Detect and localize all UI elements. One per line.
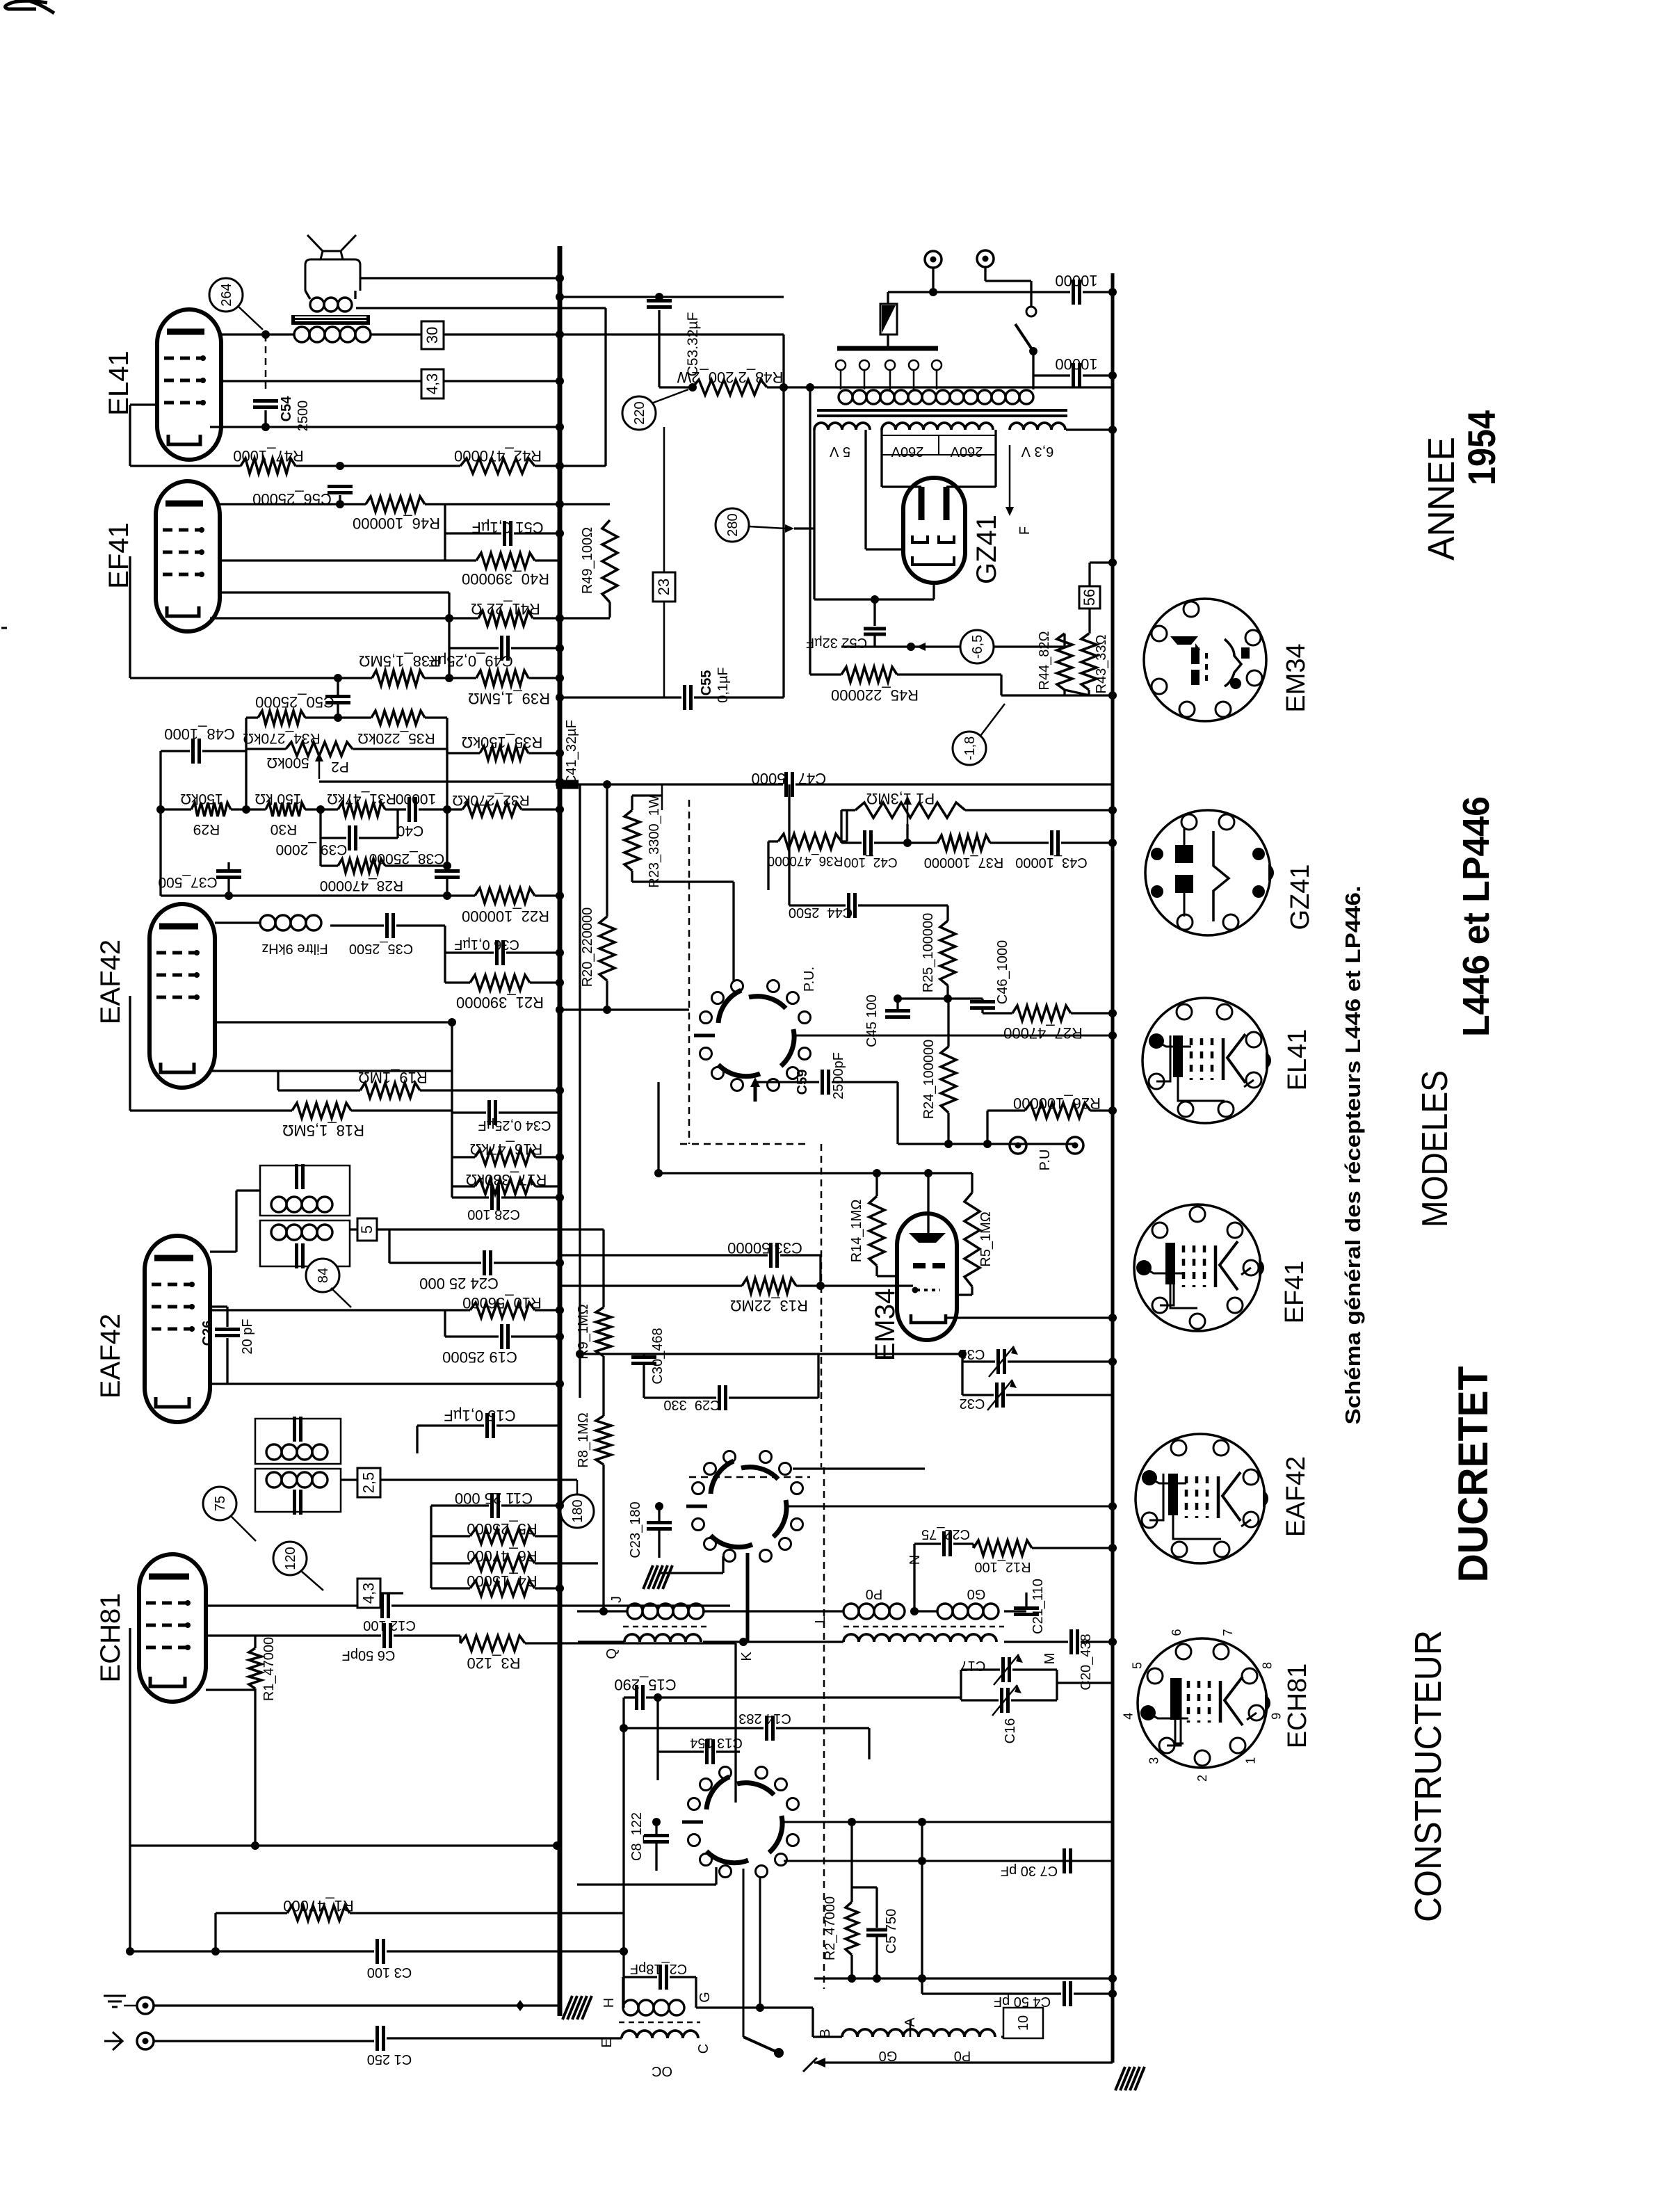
wire R4 right bbox=[535, 1587, 560, 1589]
svg-text:R43_33Ω: R43_33Ω bbox=[1094, 634, 1109, 693]
IFT B upper coil bbox=[266, 1444, 282, 1460]
transformer T1 core bbox=[817, 409, 1067, 412]
capacitor C20 bbox=[1069, 1629, 1073, 1654]
svg-text:R35_150kΩ: R35_150kΩ bbox=[462, 734, 543, 751]
row C4 bbox=[922, 1992, 1061, 1994]
tube EF41 bbox=[156, 481, 220, 631]
tap box 5 bbox=[357, 1218, 377, 1241]
box 10 bbox=[1003, 2008, 1043, 2038]
wire C53 drop bbox=[658, 310, 660, 387]
wafer S3 left arm bbox=[682, 1821, 703, 1824]
wire GO to C21 bbox=[1004, 1610, 1026, 1612]
wire vertical drop to R42 row bbox=[604, 308, 606, 466]
svg-text:R37_100000: R37_100000 bbox=[924, 855, 1004, 870]
wire C5 bottom bbox=[875, 1935, 878, 1978]
svg-text:C8_122: C8_122 bbox=[629, 1812, 645, 1861]
svg-text:10000: 10000 bbox=[1055, 355, 1097, 373]
capacitor C53 bbox=[647, 299, 672, 303]
svg-text:R39_1,5MΩ: R39_1,5MΩ bbox=[468, 690, 550, 707]
resistor R8 (vertical) bbox=[596, 1416, 611, 1465]
junction bbox=[873, 1974, 881, 1983]
svg-text:R26_100000: R26_100000 bbox=[1013, 1095, 1101, 1112]
wire primary to 30 box bbox=[371, 333, 421, 335]
junction bbox=[556, 644, 564, 652]
svg-text:MODELES: MODELES bbox=[1415, 1070, 1455, 1227]
resistor R49 (vertical) bbox=[602, 520, 617, 602]
wire bottom arrow row bbox=[814, 2061, 1113, 2063]
wire R1 bottom bbox=[254, 1688, 256, 1846]
svg-text:4: 4 bbox=[1122, 1713, 1136, 1720]
wafer S3 stem2 bbox=[759, 1878, 761, 2008]
wire J right bbox=[702, 1610, 843, 1612]
wire callout 264 to plate node bbox=[239, 307, 263, 330]
wire EAF42b cathode row bbox=[210, 1382, 560, 1385]
wire switch blade2 bbox=[1015, 324, 1033, 351]
svg-text:R25_100000: R25_100000 bbox=[921, 913, 936, 993]
wire C59 right bbox=[832, 1081, 898, 1083]
svg-text:C33 50000: C33 50000 bbox=[727, 1239, 802, 1257]
svg-text:C4 50 pF: C4 50 pF bbox=[994, 1994, 1051, 2009]
svg-text:CONSTRUCTEUR: CONSTRUCTEUR bbox=[1407, 1630, 1449, 1922]
wire C32 right bbox=[1006, 1394, 1113, 1396]
wire R36 right bbox=[841, 840, 847, 842]
svg-text:Schéma général des récepteurs: Schéma général des récepteurs L446 et LP… bbox=[1341, 886, 1365, 1425]
wire R47 to C56 node bbox=[296, 465, 340, 467]
resistor R35b bbox=[371, 711, 425, 725]
junction bbox=[1108, 558, 1117, 567]
svg-text:F: F bbox=[1017, 526, 1033, 535]
wire main HT bus (vertical) bbox=[558, 246, 563, 2016]
svg-text:4,3: 4,3 bbox=[423, 373, 441, 395]
capacitor C8 bbox=[644, 1834, 669, 1837]
antenna terminal bbox=[137, 2033, 154, 2049]
wire row 427 bbox=[560, 296, 784, 298]
wire ground row to bus bbox=[154, 2004, 560, 2006]
wire C4 right bbox=[1074, 1992, 1113, 1994]
svg-text:3: 3 bbox=[1147, 1757, 1161, 1764]
wire cap to bus bbox=[1083, 291, 1113, 293]
tube GZ41 bbox=[903, 478, 965, 583]
wire R27 right bbox=[1071, 1012, 1113, 1014]
svg-text:R20_220000: R20_220000 bbox=[580, 908, 595, 987]
wire 56 bottom bbox=[1088, 608, 1090, 634]
svg-text:-1,8: -1,8 bbox=[962, 736, 978, 760]
junction bbox=[918, 1818, 926, 1826]
dashed core OC bbox=[619, 2022, 700, 2024]
wire R26 left drop bbox=[986, 1111, 988, 1144]
wire R14 top bbox=[875, 1173, 878, 1196]
svg-text:120: 120 bbox=[283, 1547, 298, 1570]
tube EAF42 second bbox=[145, 1236, 210, 1422]
wire C55 right bbox=[694, 696, 784, 698]
wire antenna row bbox=[154, 2040, 374, 2042]
resistor R24 (vertical) bbox=[941, 1047, 956, 1113]
resistor R21 bbox=[470, 975, 530, 990]
svg-text:GZ41: GZ41 bbox=[1286, 864, 1315, 930]
wire R19 right bbox=[420, 1089, 560, 1091]
svg-text:150kΩ: 150kΩ bbox=[180, 791, 223, 807]
wire up to wafer bbox=[722, 1556, 724, 1573]
svg-text:C6 50pF: C6 50pF bbox=[342, 1647, 396, 1663]
resistor R44 (vertical) bbox=[1057, 634, 1072, 690]
wire R18 left bbox=[130, 1109, 292, 1111]
junction bbox=[944, 1140, 953, 1148]
junction bbox=[336, 462, 344, 470]
junction bbox=[873, 1169, 881, 1177]
wire R44 top bbox=[1063, 634, 1065, 647]
svg-text:C34 0,25µF: C34 0,25µF bbox=[478, 1118, 551, 1133]
wire R23 top row bbox=[631, 796, 633, 810]
wire R36 left bbox=[768, 840, 778, 842]
svg-text:R22_100000: R22_100000 bbox=[462, 908, 549, 925]
junction bbox=[556, 1584, 564, 1593]
wire R1b left bbox=[216, 1912, 287, 1914]
svg-text:20 pF: 20 pF bbox=[240, 1319, 255, 1354]
junction bbox=[983, 1140, 992, 1148]
ground hatch at bottom of right bus bbox=[1115, 2067, 1125, 2090]
wire R33 left bbox=[447, 752, 480, 754]
wire R28 right bbox=[385, 864, 447, 866]
PU jack 2 bbox=[1067, 1137, 1083, 1154]
resistor R3 bbox=[460, 1636, 525, 1651]
wire C55 left bbox=[560, 696, 681, 698]
svg-text:30: 30 bbox=[423, 327, 441, 344]
svg-text:EAF42: EAF42 bbox=[95, 940, 126, 1024]
wire c13 drop bbox=[656, 1728, 659, 1780]
svg-text:C43_10000: C43_10000 bbox=[1015, 855, 1087, 870]
wire B col bbox=[811, 2008, 814, 2037]
tube ECH81 bbox=[139, 1554, 206, 1702]
wire ECH81 triode grid return bbox=[129, 1628, 131, 1951]
wire A tap bbox=[910, 2020, 912, 2037]
svg-text:G0: G0 bbox=[879, 2048, 898, 2063]
wire R13 left bbox=[560, 1284, 742, 1287]
wire EF41 plate row bbox=[220, 503, 366, 505]
junction bbox=[1108, 426, 1117, 434]
wire R23 bottom row bbox=[632, 880, 734, 882]
wire vertical x461 bbox=[319, 809, 321, 866]
IFT B lower coil bbox=[266, 1472, 282, 1488]
capacitor C6 bbox=[382, 1623, 386, 1648]
junction bbox=[1108, 1544, 1117, 1552]
transformer T1 6,3V winding bbox=[1010, 423, 1065, 430]
wire P2 left bbox=[246, 748, 286, 750]
junction bbox=[261, 330, 270, 339]
wire C2 bracketR bbox=[695, 1977, 697, 2008]
wire R1b right bbox=[350, 1912, 624, 1914]
junction bbox=[556, 293, 564, 301]
wire C29 left bbox=[644, 1396, 716, 1398]
svg-text:M: M bbox=[1042, 1653, 1058, 1665]
svg-text:C21_110: C21_110 bbox=[1031, 1579, 1046, 1634]
wire C35 right bbox=[396, 924, 445, 926]
wire R48 row right bbox=[767, 386, 1113, 388]
wire EM34 cathode out bbox=[946, 1316, 1113, 1319]
wire C14 left bbox=[624, 1727, 764, 1729]
wire top row drop bbox=[657, 1082, 659, 1173]
wire EL41 grid left bbox=[130, 403, 159, 405]
wire C8 bottom bbox=[655, 1842, 657, 1871]
svg-text:G0: G0 bbox=[967, 1586, 986, 1602]
capacitor C44 bbox=[847, 893, 850, 918]
wire EF41 screen row bbox=[220, 559, 476, 561]
svg-text:R24_100000: R24_100000 bbox=[921, 1040, 937, 1120]
wire switch blade bbox=[743, 2037, 779, 2053]
svg-text:C36 0,1µF: C36 0,1µF bbox=[454, 937, 519, 952]
capacitor C41 bbox=[556, 780, 579, 784]
wire to bus c16 bbox=[1057, 1682, 1113, 1684]
capacitor C12 bbox=[380, 1593, 384, 1618]
svg-text:R4_15000: R4_15000 bbox=[467, 1572, 538, 1590]
wire R35b right bbox=[425, 716, 447, 718]
svg-text:-6,5: -6,5 bbox=[970, 635, 985, 659]
junction bbox=[918, 1857, 926, 1865]
wire C31 left lead bbox=[962, 1360, 995, 1362]
wafer S3 right arm bbox=[784, 1821, 1113, 1823]
junction bbox=[443, 805, 451, 814]
svg-text:280: 280 bbox=[725, 513, 741, 536]
wire 260V left plate bbox=[880, 430, 882, 487]
wire P1 left bbox=[841, 809, 855, 811]
capacitor C38 (vertical) bbox=[435, 869, 460, 873]
wire C49 left bbox=[449, 647, 499, 649]
wire R25 top bbox=[946, 905, 948, 921]
callout circle 120 bbox=[273, 1542, 307, 1575]
wire EF41 cathode row bbox=[210, 617, 478, 619]
capacitor C49 bbox=[500, 636, 503, 661]
wire ground lead bbox=[124, 2005, 137, 2007]
wire C3 right bbox=[387, 1950, 624, 1952]
wire row1164 b bbox=[231, 808, 266, 810]
junction bbox=[655, 1502, 663, 1510]
resistor R5 25000 bbox=[470, 1529, 535, 1544]
wafer S2 left arm bbox=[686, 1505, 707, 1508]
capacitor C22 bbox=[942, 1531, 946, 1556]
fuse bbox=[880, 304, 897, 334]
junction bbox=[556, 1332, 564, 1341]
wire jack1 lead bbox=[932, 268, 934, 292]
wire C34 left bbox=[452, 1111, 486, 1113]
wire R48 row left bbox=[659, 386, 693, 388]
wire P2 right bbox=[353, 748, 447, 750]
junction bbox=[603, 780, 611, 789]
wire S3 lower row bbox=[577, 1883, 716, 1885]
wire wiper drop bbox=[906, 824, 908, 843]
svg-text:C17: C17 bbox=[960, 1658, 986, 1673]
capacitor C52 bbox=[864, 627, 886, 631]
wire C17 bracket bbox=[960, 1670, 962, 1700]
wire P1 right bbox=[965, 809, 1113, 811]
svg-text:Q: Q bbox=[604, 1648, 620, 1659]
coil PO bbox=[843, 1604, 859, 1619]
phone jack 1 bbox=[925, 251, 942, 268]
wire R37 to C43 bbox=[990, 841, 1049, 844]
wire 23 bottom bbox=[663, 602, 665, 698]
wire C15b left bbox=[417, 1424, 484, 1426]
wire EM34 grid feed bbox=[927, 1173, 929, 1233]
wire R16 right bbox=[535, 1156, 560, 1158]
junction bbox=[944, 994, 952, 1003]
junction bbox=[894, 994, 902, 1003]
wire C36 right bbox=[506, 951, 560, 953]
wire bottoms row bbox=[1001, 694, 1113, 696]
wire R18 right bbox=[351, 1109, 452, 1111]
wire C16 right bbox=[1011, 1699, 1057, 1701]
resistor R34 bbox=[258, 711, 305, 725]
capacitor C37 (vertical) bbox=[216, 869, 241, 873]
wire row 1452 bbox=[560, 1008, 689, 1010]
wire C59 drop bbox=[896, 1082, 898, 1144]
svg-text:R28_470000: R28_470000 bbox=[320, 878, 403, 894]
transformer T1 primary bar bbox=[837, 346, 938, 351]
wire C46 top stub bbox=[981, 999, 983, 1002]
coil E-C (OC) bbox=[622, 2031, 698, 2038]
wire C23 top bbox=[658, 1506, 660, 1522]
wire R1b drop bbox=[214, 1913, 216, 1951]
svg-text:C24 25 000: C24 25 000 bbox=[419, 1275, 499, 1292]
coil J bbox=[627, 1604, 643, 1619]
arrow S bbox=[814, 2058, 825, 2067]
wire R24 bottom bbox=[947, 1113, 949, 1144]
wire R40 to bus bbox=[535, 559, 560, 561]
junction bbox=[443, 862, 451, 870]
callout circle 75 bbox=[203, 1487, 236, 1520]
wire left vertical bbox=[159, 751, 161, 896]
wire C13 right bbox=[716, 1750, 740, 1752]
wire x1326 down bbox=[921, 1822, 923, 1994]
wire Q left bbox=[578, 1640, 624, 1643]
svg-text:56: 56 bbox=[1081, 589, 1098, 606]
resistor R30 bbox=[266, 803, 305, 816]
junction bbox=[688, 383, 697, 392]
corner scribble bbox=[5, 1, 47, 9]
svg-text:C32: C32 bbox=[960, 1396, 985, 1411]
resistor R33 150k bbox=[480, 746, 528, 760]
svg-text:R3_120: R3_120 bbox=[467, 1654, 520, 1672]
wire 260V right plate bbox=[994, 430, 996, 487]
junction bbox=[556, 749, 564, 757]
wire R17 left bbox=[452, 1185, 475, 1187]
capacitor C29 bbox=[718, 1385, 721, 1410]
tap box 2,5 bbox=[357, 1468, 380, 1497]
svg-text:1: 1 bbox=[1243, 1757, 1257, 1764]
svg-text:10000: 10000 bbox=[396, 791, 436, 807]
svg-text:R17_330kΩ: R17_330kΩ bbox=[466, 1171, 547, 1188]
capacitor C23 bbox=[647, 1521, 672, 1524]
wire grid drop bbox=[448, 592, 450, 678]
svg-text:R16_47kΩ: R16_47kΩ bbox=[470, 1140, 543, 1158]
wire left coil column bbox=[622, 1698, 624, 2008]
callout circle -1,8 bbox=[953, 732, 986, 765]
wire R5b top bbox=[971, 1173, 973, 1193]
wire node to R42 bbox=[340, 465, 460, 467]
wire R20 top bbox=[606, 784, 608, 917]
svg-text:R35_220kΩ: R35_220kΩ bbox=[357, 730, 435, 746]
wire C39 right bbox=[359, 837, 398, 839]
junction bbox=[261, 423, 270, 431]
wire C47 left bbox=[689, 783, 783, 785]
junction bbox=[126, 1947, 134, 1956]
socket diagram EF41 bbox=[1134, 1204, 1261, 1331]
svg-text:C52 32µF: C52 32µF bbox=[806, 635, 867, 650]
wire R6 right bbox=[535, 1562, 598, 1564]
wire R41 to bus bbox=[533, 617, 610, 619]
wire C24 left up bbox=[388, 1230, 390, 1263]
resistor R17 bbox=[475, 1179, 535, 1194]
transformer T2 secondary coil bbox=[310, 298, 324, 312]
dashed h wafer2 bbox=[689, 1476, 810, 1478]
junction bbox=[929, 288, 937, 296]
transformer T2 primary coil bbox=[294, 327, 309, 342]
wire EAF42 cathode row bbox=[211, 1070, 452, 1072]
resistor R5b (vertical) bbox=[964, 1193, 980, 1287]
junction bbox=[556, 330, 564, 339]
wire callout 180 bbox=[576, 1480, 579, 1494]
wire grid to R47 bbox=[130, 465, 241, 467]
wire C3 left bbox=[130, 1950, 374, 1952]
capacitor C34 bbox=[487, 1100, 491, 1125]
capacitor C33 bbox=[769, 1243, 773, 1268]
capacitor C14 bbox=[765, 1716, 768, 1741]
wire C42 left bbox=[841, 841, 862, 844]
svg-text:P0: P0 bbox=[954, 2048, 971, 2063]
wire C17 left bbox=[961, 1668, 1000, 1670]
coil GO bbox=[937, 1604, 953, 1619]
svg-text:GZ41: GZ41 bbox=[971, 515, 1002, 584]
svg-text:1954: 1954 bbox=[1460, 410, 1503, 485]
wire C44 left drop bbox=[788, 784, 790, 905]
wire top row left bbox=[246, 716, 258, 718]
wire drop bbox=[1000, 675, 1002, 695]
junction bbox=[1108, 1357, 1117, 1366]
potentiometer P1 bbox=[855, 803, 965, 818]
svg-text:EAF42: EAF42 bbox=[1282, 1456, 1311, 1537]
junction bbox=[556, 1380, 564, 1388]
junction bbox=[848, 1818, 856, 1826]
svg-text:C39 _2000: C39 _2000 bbox=[276, 841, 348, 857]
wire R28 left bbox=[321, 864, 338, 866]
wire cathode down bbox=[932, 583, 935, 599]
resistor R48 bbox=[693, 380, 767, 395]
IFT A upper cap bbox=[295, 1164, 298, 1189]
svg-text:K: K bbox=[739, 1652, 754, 1661]
wire osc sec right bbox=[1004, 1640, 1068, 1643]
wire G row right bbox=[696, 2006, 813, 2008]
svg-text:L: L bbox=[813, 1615, 828, 1623]
junction bbox=[1108, 1106, 1117, 1115]
capacitor C15 290 bbox=[635, 1685, 638, 1710]
svg-text:C2_18pF: C2_18pF bbox=[630, 1961, 687, 1976]
junction bbox=[445, 614, 453, 622]
resistor R45 bbox=[841, 667, 897, 682]
rotary switch wafer S1 (P.U. selector) bbox=[718, 990, 741, 1023]
wire speaker top row to bus bbox=[360, 277, 560, 279]
transformer T1 260V windings bbox=[882, 423, 993, 430]
junction bbox=[556, 693, 564, 702]
wire C33 bracket bbox=[819, 1255, 821, 1286]
svg-text:R34_270kΩ: R34_270kΩ bbox=[243, 730, 320, 746]
wire EM34 top row bbox=[659, 1172, 972, 1174]
svg-text:5: 5 bbox=[1130, 1662, 1144, 1669]
wire C2 left bbox=[623, 1976, 657, 1978]
svg-text:5 V: 5 V bbox=[829, 444, 850, 459]
callout circle 180 bbox=[560, 1494, 594, 1528]
svg-text:75: 75 bbox=[213, 1496, 228, 1511]
junction bbox=[556, 529, 564, 538]
wire C30 row left bbox=[580, 1353, 644, 1355]
svg-text:H: H bbox=[601, 1998, 617, 2008]
resistor R20 (vertical) bbox=[599, 917, 615, 981]
